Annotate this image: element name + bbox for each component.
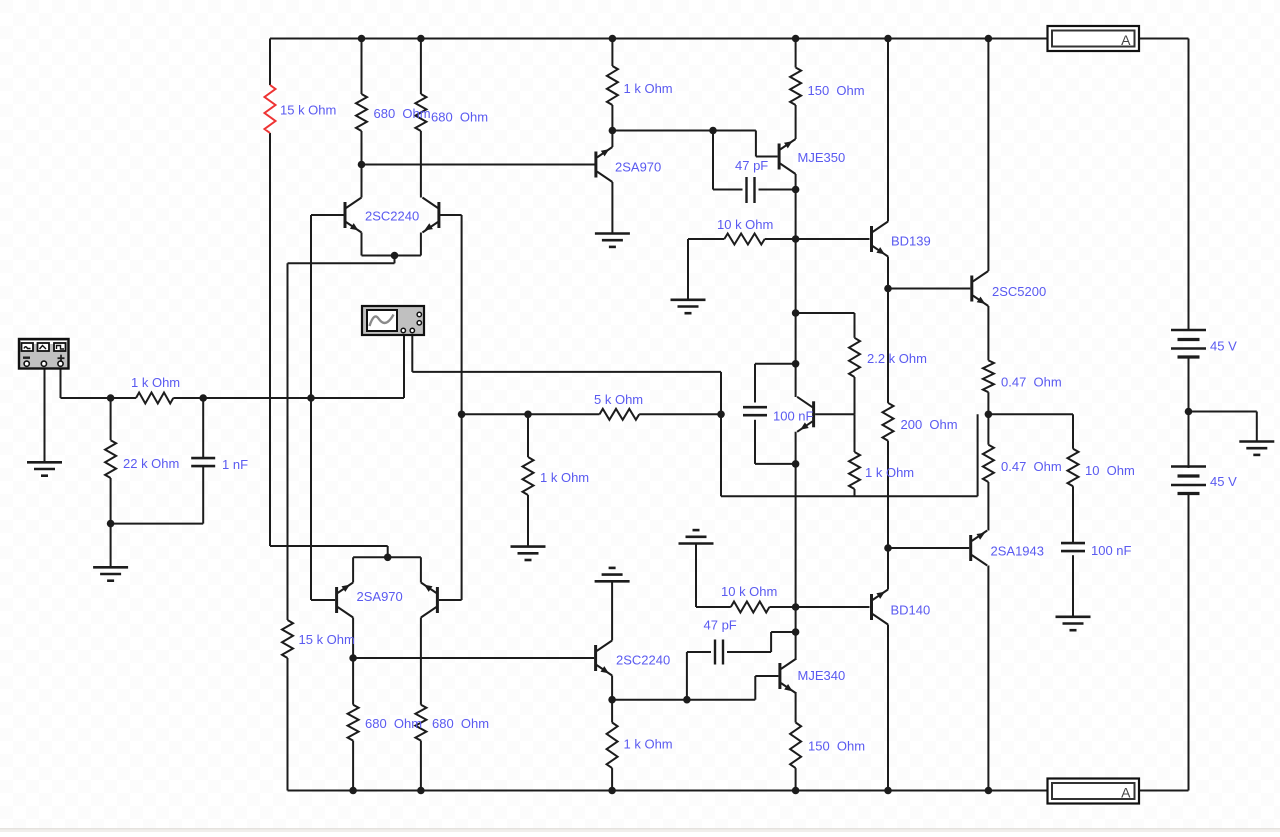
svg-text:BD140: BD140: [891, 603, 931, 618]
svg-text:2SC2240: 2SC2240: [616, 653, 670, 668]
svg-text:1 k Ohm: 1 k Ohm: [624, 81, 673, 96]
svg-text:680 Ohm: 680 Ohm: [432, 716, 489, 731]
svg-text:15 k Ohm: 15 k Ohm: [280, 103, 336, 118]
svg-text:5 k Ohm: 5 k Ohm: [594, 392, 643, 407]
svg-text:45 V: 45 V: [1210, 474, 1237, 489]
svg-text:15 k Ohm: 15 k Ohm: [299, 632, 355, 647]
svg-text:1 k Ohm: 1 k Ohm: [540, 470, 589, 485]
svg-text:A: A: [1121, 32, 1131, 48]
svg-text:10 k Ohm: 10 k Ohm: [717, 217, 773, 232]
svg-text:200 Ohm: 200 Ohm: [901, 417, 958, 432]
svg-text:0.47 Ohm: 0.47 Ohm: [1001, 459, 1062, 474]
svg-text:10 k Ohm: 10 k Ohm: [721, 584, 777, 599]
svg-text:10 Ohm: 10 Ohm: [1085, 463, 1135, 478]
svg-text:100 nF: 100 nF: [1091, 543, 1132, 558]
svg-text:1 k Ohm: 1 k Ohm: [624, 737, 673, 752]
svg-text:1 nF: 1 nF: [222, 457, 248, 472]
svg-text:MJE350: MJE350: [798, 150, 846, 165]
svg-text:2.2 k Ohm: 2.2 k Ohm: [867, 351, 927, 366]
svg-text:680 Ohm: 680 Ohm: [374, 106, 431, 121]
svg-text:2SA970: 2SA970: [357, 589, 403, 604]
svg-text:0.47 Ohm: 0.47 Ohm: [1001, 375, 1062, 390]
svg-text:A: A: [1121, 785, 1131, 801]
svg-text:BD139: BD139: [891, 234, 931, 249]
svg-text:45 V: 45 V: [1210, 339, 1237, 354]
svg-text:680 Ohm: 680 Ohm: [431, 110, 488, 125]
svg-text:22 k Ohm: 22 k Ohm: [123, 456, 179, 471]
svg-text:680 Ohm: 680 Ohm: [365, 716, 422, 731]
svg-text:2SC5200: 2SC5200: [992, 284, 1046, 299]
svg-text:100 nF: 100 nF: [773, 409, 814, 424]
svg-text:1 k Ohm: 1 k Ohm: [131, 375, 180, 390]
svg-text:150 Ohm: 150 Ohm: [808, 83, 865, 98]
svg-text:47 pF: 47 pF: [735, 158, 768, 173]
svg-text:2SA970: 2SA970: [615, 160, 661, 175]
svg-text:2SA1943: 2SA1943: [991, 544, 1045, 559]
svg-text:47 pF: 47 pF: [704, 618, 737, 633]
svg-text:2SC2240: 2SC2240: [365, 209, 419, 224]
svg-text:MJE340: MJE340: [798, 668, 846, 683]
svg-text:150 Ohm: 150 Ohm: [808, 739, 865, 754]
svg-text:1 k Ohm: 1 k Ohm: [865, 465, 914, 480]
